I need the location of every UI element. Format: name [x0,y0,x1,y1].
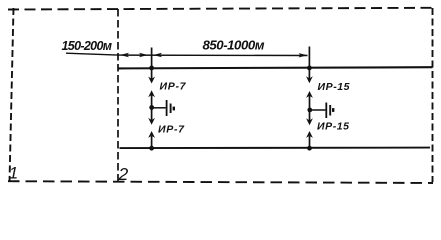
svg-text:ИР-15: ИР-15 [317,121,349,133]
svg-text:850-1000м: 850-1000м [203,38,265,53]
svg-text:ИР-7: ИР-7 [158,124,185,136]
svg-text:150-200м: 150-200м [62,39,113,53]
svg-text:1: 1 [9,163,18,182]
svg-text:ИР-7: ИР-7 [160,81,187,93]
svg-text:2: 2 [118,164,129,184]
svg-text:ИР-15: ИР-15 [318,81,350,93]
